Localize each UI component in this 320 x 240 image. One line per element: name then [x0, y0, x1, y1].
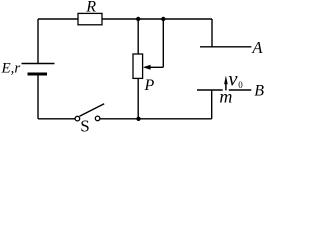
velocity v0 arrowhead	[224, 76, 228, 85]
svg-text:A: A	[251, 38, 263, 57]
wire plate B lead down to bottom wire	[211, 90, 213, 119]
svg-text:P: P	[144, 77, 155, 94]
switch S blade	[80, 104, 105, 116]
wire right vertical (top wire to plate A)	[211, 19, 213, 47]
wire wiper branch vertical	[162, 19, 164, 67]
battery E,r short plate	[28, 73, 48, 76]
plate A	[200, 46, 251, 48]
battery E,r long plate	[22, 63, 55, 65]
wire left vertical (top corner to battery)	[37, 19, 39, 64]
svg-text:m: m	[219, 87, 232, 107]
wiper arrowhead	[143, 65, 151, 70]
svg-text:E,r: E,r	[1, 60, 21, 76]
potentiometer P body	[133, 54, 143, 78]
junction dot top wire / wiper branch	[161, 17, 165, 21]
resistor R	[78, 13, 102, 24]
svg-text:R: R	[85, 0, 96, 16]
plate B left segment	[197, 89, 223, 91]
wire bottom (switch to plate-B branch corner)	[100, 118, 212, 120]
svg-text:0: 0	[238, 80, 243, 90]
junction dot top wire / potentiometer top	[136, 17, 140, 21]
junction dot bottom wire / potentiometer bottom	[136, 117, 140, 121]
svg-text:S: S	[80, 116, 89, 133]
wire bottom (corner to switch)	[38, 118, 75, 120]
wire left vertical (battery to bottom corner)	[37, 76, 39, 119]
wire resistor to top-right corner	[102, 18, 212, 20]
switch S left contact	[75, 116, 80, 121]
wire top-left horizontal (battery+ to resistor)	[38, 18, 78, 20]
wire wiper branch horizontal	[150, 66, 164, 68]
plate B right segment	[229, 89, 252, 91]
wire potentiometer bottom lead	[137, 78, 139, 118]
switch S right contact	[95, 116, 100, 121]
svg-text:B: B	[254, 83, 264, 100]
wire potentiometer top lead	[137, 19, 139, 54]
velocity v0 arrow shaft	[225, 82, 227, 90]
